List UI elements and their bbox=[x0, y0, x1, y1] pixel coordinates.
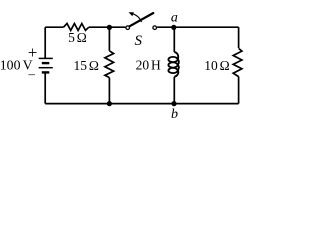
svg-text:S: S bbox=[134, 33, 142, 49]
svg-text:–: – bbox=[28, 66, 36, 81]
svg-text:a: a bbox=[171, 11, 178, 26]
svg-text:20 H: 20 H bbox=[136, 57, 161, 72]
svg-text:5 Ω: 5 Ω bbox=[68, 30, 87, 45]
svg-text:15 Ω: 15 Ω bbox=[73, 58, 98, 73]
svg-text:+: + bbox=[28, 43, 38, 62]
svg-text:10 Ω: 10 Ω bbox=[204, 58, 229, 73]
svg-text:b: b bbox=[171, 107, 178, 122]
